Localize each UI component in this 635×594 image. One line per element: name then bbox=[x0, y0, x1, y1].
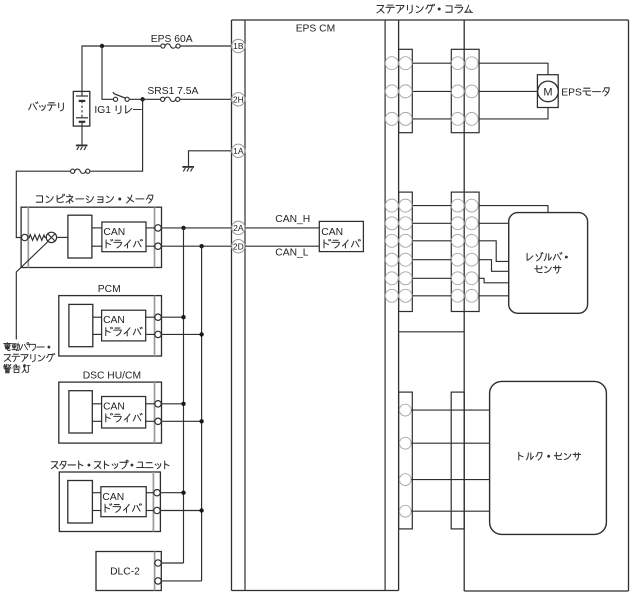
connector housing at steering column side bbox=[451, 49, 479, 132]
svg-text:EPS 60A: EPS 60A bbox=[151, 34, 193, 45]
connector pin bbox=[399, 474, 411, 486]
wire between connectors bbox=[412, 90, 451, 92]
wire to motor phase 1 bbox=[479, 63, 548, 74]
EPS CM CAN driver box bbox=[319, 221, 363, 251]
svg-text:CAN: CAN bbox=[103, 315, 125, 326]
svg-text:2A: 2A bbox=[233, 223, 244, 233]
label konbineeshon-meeta (combination meter) bbox=[36, 196, 42, 202]
EPS CM control module box bbox=[232, 20, 629, 591]
label sutaato-sutoppu-yunitto (start stop unit) bbox=[51, 462, 58, 469]
wire between connectors bbox=[412, 277, 451, 279]
CAN_L wire inside EPS CM bbox=[245, 245, 319, 247]
connector pin pair bbox=[451, 85, 464, 98]
connector pin pair bbox=[451, 199, 464, 212]
junction at battery feed bbox=[100, 44, 104, 48]
resolver wire 2 bbox=[479, 222, 509, 224]
connector pin pair bbox=[385, 289, 398, 302]
CAN_H bus vertical bbox=[183, 228, 185, 563]
meter right pins bbox=[155, 225, 161, 231]
torque sensor wire 1 bbox=[411, 409, 489, 411]
annotation line from lamp to warning-lamp label bbox=[16, 242, 48, 340]
EPS motor box bbox=[537, 75, 558, 108]
pin 2D bbox=[232, 240, 245, 253]
resolver wire 5 bbox=[479, 278, 509, 283]
connector pin pair bbox=[385, 272, 398, 285]
IG1 relay switch bbox=[113, 97, 117, 101]
svg-text:CAN: CAN bbox=[102, 492, 124, 503]
connector pin pair bbox=[385, 217, 398, 230]
fuse on meter feed wire bbox=[71, 169, 75, 173]
connector pin pair bbox=[451, 234, 464, 247]
connector pin pair bbox=[385, 199, 398, 212]
wire relay to SRS1 fuse to pin 2H bbox=[129, 98, 160, 100]
svg-text:M: M bbox=[543, 86, 552, 98]
svg-text:CAN: CAN bbox=[321, 227, 343, 238]
battery ground wire bbox=[81, 126, 83, 145]
battery B+ wire to EPS 60A fuse and pin 1B bbox=[82, 46, 161, 91]
connector pin pair bbox=[451, 217, 464, 230]
connector housing at EPS CM side bbox=[399, 392, 413, 529]
label toruku-sensa (torque sensor) bbox=[519, 452, 523, 460]
connector pin pair bbox=[451, 113, 464, 126]
DLC-2 wires to CAN buses bbox=[161, 562, 183, 564]
DLC-2 box bbox=[96, 552, 161, 591]
DSC wires to CAN buses bbox=[161, 403, 183, 405]
wire between connectors bbox=[412, 205, 451, 207]
DLC-2 pins bbox=[155, 560, 161, 566]
pin 1A bbox=[232, 144, 245, 157]
PCM pins bbox=[155, 314, 161, 320]
meter CAN driver box bbox=[102, 222, 146, 252]
PCM wires to CAN buses bbox=[161, 316, 183, 318]
CAN_L wire meter to pin 2D bbox=[161, 245, 231, 247]
svg-text:DLC-2: DLC-2 bbox=[110, 566, 140, 577]
label rezoruba-sensa (resolver sensor) bbox=[527, 253, 533, 260]
fuse SRS1 7.5A bbox=[161, 97, 165, 101]
fuse EPS 60A bbox=[161, 44, 165, 48]
svg-text:PCM: PCM bbox=[98, 284, 121, 295]
svg-text:1A: 1A bbox=[233, 146, 244, 156]
meter left pin bbox=[22, 234, 28, 240]
svg-text:DSC HU/CM: DSC HU/CM bbox=[83, 370, 141, 381]
resistor in meter bbox=[28, 235, 46, 241]
resolver sensor box (rezoruba sensa) bbox=[509, 213, 588, 314]
CAN_H wire meter to pin 2A bbox=[161, 227, 231, 229]
DSC internal block bbox=[69, 391, 92, 433]
svg-text:CAN: CAN bbox=[103, 402, 125, 413]
svg-text:EPS: EPS bbox=[561, 87, 582, 98]
connector pin pair bbox=[451, 57, 464, 70]
connector pin pair bbox=[451, 289, 464, 302]
EPS warning lamp (bulb) in meter bbox=[46, 232, 56, 242]
start-stop internal block bbox=[68, 481, 93, 524]
svg-text:CAN_H: CAN_H bbox=[275, 214, 310, 225]
pin 1B bbox=[232, 39, 245, 52]
svg-text:IG1: IG1 bbox=[94, 105, 111, 116]
junction CAN_H bus bbox=[181, 226, 185, 230]
svg-text:1B: 1B bbox=[233, 41, 244, 51]
connector pin pair bbox=[385, 234, 398, 247]
connector housing at EPS CM side bbox=[399, 192, 413, 311]
svg-text:CAN_L: CAN_L bbox=[275, 247, 308, 258]
resolver wire 3 bbox=[479, 241, 509, 262]
ground near EPS CM 1A bbox=[182, 166, 194, 168]
resolver wire 4 bbox=[479, 260, 509, 272]
DSC CAN driver box bbox=[102, 397, 146, 429]
wire between connectors bbox=[412, 222, 451, 224]
start-stop unit box (sutaato sutoppu yunitto) bbox=[59, 472, 160, 532]
motor M circle bbox=[538, 81, 559, 102]
wire between connectors bbox=[412, 259, 451, 261]
DSC HU/CM box bbox=[59, 382, 162, 443]
connector pin bbox=[399, 404, 411, 416]
label suteringu-koramu (steering column) bbox=[377, 6, 384, 13]
start-stop wires to CAN buses bbox=[160, 492, 183, 494]
svg-text:SRS1 7.5A: SRS1 7.5A bbox=[147, 86, 198, 97]
connector pin bbox=[399, 505, 411, 517]
connector pin pair bbox=[385, 253, 398, 266]
meter internal block bbox=[68, 215, 92, 258]
wire between connectors bbox=[412, 62, 451, 64]
pin 2H bbox=[232, 93, 245, 106]
wire to motor phase 2 bbox=[479, 90, 537, 92]
ground wire at pin 1A bbox=[189, 151, 232, 167]
connector pin pair bbox=[451, 272, 464, 285]
connector housing at steering column side bbox=[451, 392, 464, 529]
junction after relay bbox=[140, 97, 144, 101]
torque sensor wire 3 bbox=[411, 479, 489, 481]
DSC pins bbox=[155, 401, 161, 407]
svg-text:EPS CM: EPS CM bbox=[296, 24, 335, 35]
EPS CM to steering column link wire bbox=[399, 331, 465, 333]
PCM internal block bbox=[69, 304, 93, 346]
connector pin pair bbox=[385, 57, 398, 70]
PCM CAN driver box bbox=[102, 310, 146, 341]
wire between connectors bbox=[412, 118, 451, 120]
combination meter box (konbineeshon meeta) bbox=[21, 207, 161, 267]
wire between connectors bbox=[412, 295, 451, 297]
svg-text:2H: 2H bbox=[233, 94, 244, 104]
label dendou pawaa sutearingu keikokutou (EPS warning light) bbox=[4, 343, 11, 351]
torque sensor wire 4 bbox=[411, 510, 489, 512]
connector pin pair bbox=[451, 253, 464, 266]
wire down to meter pin bbox=[16, 171, 21, 237]
connector housing at EPS CM side bbox=[399, 49, 413, 132]
connector pin pair bbox=[385, 85, 398, 98]
start-stop CAN driver box bbox=[101, 487, 146, 517]
torque sensor box (toruku sensa) bbox=[490, 381, 607, 534]
start-stop pins bbox=[154, 490, 160, 496]
steering column box (sutearingu koramu) bbox=[464, 20, 628, 591]
connector pin bbox=[399, 437, 411, 449]
ground below battery bbox=[76, 144, 88, 146]
battery bbox=[73, 91, 90, 126]
CAN_H wire inside EPS CM bbox=[245, 227, 319, 229]
junction CAN_L bus bbox=[199, 244, 203, 248]
resolver wire 6 bbox=[479, 295, 509, 297]
wire from relay junction down and left to combination meter bbox=[90, 99, 143, 171]
wire from junction down to IG1 relay bbox=[102, 46, 113, 99]
label batteri (battery) bbox=[29, 102, 38, 110]
wire between connectors bbox=[412, 240, 451, 242]
torque sensor wire 2 bbox=[411, 442, 489, 444]
wire to motor phase 3 bbox=[479, 108, 548, 119]
resolver wire 1 bbox=[479, 206, 548, 213]
pin 2A bbox=[232, 221, 245, 234]
PCM box bbox=[59, 296, 162, 356]
svg-text:2D: 2D bbox=[233, 241, 244, 251]
connector housing at steering column side bbox=[451, 192, 479, 311]
connector pin pair bbox=[385, 112, 398, 125]
CAN_L bus vertical bbox=[201, 246, 203, 581]
svg-text:CAN: CAN bbox=[103, 227, 125, 238]
